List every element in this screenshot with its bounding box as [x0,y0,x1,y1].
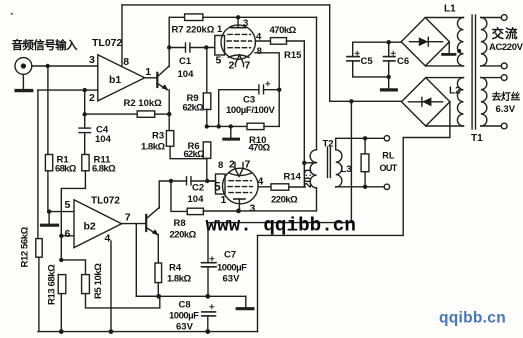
wire line A to C7 [208,101,351,262]
capacitor C7 1000uF [202,250,248,297]
transistor Q1 [157,66,169,90]
resistor R8 220k [170,208,239,240]
capacitor C4 [79,125,112,155]
svg-text:C3: C3 [243,95,255,106]
resistor R2 10k [124,98,170,117]
label 6.3V [492,90,521,115]
svg-text:1: 1 [217,24,223,35]
resistor R3 1.8k [141,114,174,152]
speck [11,13,13,15]
bridge rectifier L2 [402,78,450,126]
svg-text:L3: L3 [341,164,352,175]
wire b2 output to Q2 base [122,223,147,225]
capacitor C3 100uF [219,82,280,127]
svg-text:104: 104 [178,69,195,80]
node R9/R6 [205,124,209,128]
wire cathode rail tube1 [207,125,247,127]
node gnd stub [229,124,233,128]
svg-text:www. qqibb.cn: www. qqibb.cn [206,215,356,237]
terminal heater bottom [501,123,507,129]
wire Q2 collector up to C2 [159,181,171,208]
svg-text:C6: C6 [397,56,409,67]
wire b1 output to Q1 base [145,77,158,79]
resistor R11 6.8k [82,154,116,174]
svg-text:62kΩ: 62kΩ [183,103,204,113]
svg-text:62kΩ: 62kΩ [184,149,205,159]
ground (C7) [237,296,253,308]
svg-text:R2 10kΩ: R2 10kΩ [124,98,163,109]
svg-text:4: 4 [105,233,111,245]
wire input to b1 pin3 [32,65,98,67]
node UL tap [302,161,306,165]
svg-text:63V: 63V [223,274,241,285]
svg-text:TL072: TL072 [92,37,123,49]
resistor R15 470k [270,25,303,61]
wire b2 pin6 stub [61,235,74,237]
wire b2 output feedback down [136,224,158,297]
node C8/rail [205,329,210,334]
wire node to R5 top [61,260,85,275]
svg-text:5: 5 [216,55,222,67]
svg-text:b2: b2 [84,221,96,233]
bridge rectifier L1 [401,18,455,66]
wire top rail [122,4,330,6]
input label 音频信号输入 [12,38,78,52]
svg-text:1000µF: 1000µF [169,311,199,322]
svg-text:470kΩ: 470kΩ [270,25,297,36]
node R13/R5 [59,258,63,262]
svg-text:C5: C5 [361,56,374,67]
svg-text:交流: 交流 [492,26,519,41]
svg-text:R5 10kΩ: R5 10kΩ [93,263,104,299]
node pin4/rail [109,329,114,334]
tube V1 [215,17,262,71]
svg-text:6.3V: 6.3V [496,104,516,115]
svg-text:RL: RL [382,151,395,161]
node tube2 cathode [236,209,241,214]
node RL bottom [363,185,367,189]
terminal AC bottom [501,63,507,69]
wire Q1 collector up [168,17,170,66]
svg-text:220kΩ: 220kΩ [271,195,298,206]
svg-text:1.8kΩ: 1.8kΩ [167,274,191,285]
wire bridge L1 AC top [425,17,463,19]
ground (b2 pin5) [42,212,58,226]
node pin6 [59,234,63,238]
wire output node rail [136,295,246,297]
T1 secondary AC220V winding [481,18,502,66]
wire bridge L1 AC bottom [425,65,463,67]
wire tap to T2 primary [304,162,316,164]
node tube1 plate [236,15,240,19]
wire node down to R8 left [171,181,187,211]
svg-text:7: 7 [245,159,251,171]
resistor R9 62k [183,48,211,127]
svg-text:63V: 63V [176,322,194,333]
svg-text:R12 56kΩ: R12 56kΩ [20,226,31,267]
resistor R14 220k [271,172,302,206]
svg-text:b1: b1 [109,74,121,86]
wire node to R2 [85,113,138,115]
wire grid2 [207,180,215,182]
op-amp U1 b1 TL072 [89,37,151,104]
svg-text:R15: R15 [284,50,302,61]
svg-text:3: 3 [89,54,95,66]
wire input node down to R1 [47,66,49,155]
node C1/R9/grid1 [204,45,208,49]
svg-text:R14: R14 [284,172,302,183]
node pin5 gnd [47,209,51,213]
T1 core [472,15,475,129]
capacitor C5 [347,42,373,77]
resistor R10 470 [247,123,279,153]
wire R15 right down to tap node [287,41,305,163]
node C6 top [387,40,391,44]
wire bottom rail [38,331,258,333]
ground (C5/C6) [382,77,397,90]
svg-text:104: 104 [188,194,205,205]
node input junction [46,64,50,68]
svg-text:去灯丝: 去灯丝 [492,90,521,103]
wire supply to bridge L2 [330,100,402,102]
node C6 bottom [387,75,391,79]
svg-text:7: 7 [125,212,131,224]
node C7/C8 [205,294,210,299]
wire bridge L2 AC top [426,77,464,79]
input connector J1 [15,58,32,75]
svg-text:音频信号输入: 音频信号输入 [12,38,78,52]
svg-text:20:1: 20:1 [303,168,314,188]
T1 heater 6.3V winding [481,78,502,126]
capacitor C2 104 [171,177,216,205]
T2 secondary L3 [336,138,352,187]
wire Q1 emitter down [168,90,170,114]
node RL top [363,136,367,140]
resistor R5 10k vertical [82,263,104,299]
wire b1 pin8 up to top rail [121,5,123,66]
node supply/lineA [349,99,353,103]
svg-text:1: 1 [221,194,227,206]
svg-text:C7: C7 [224,250,236,261]
wire supply down from top rail [329,5,331,101]
terminal heater top [501,75,507,81]
ground (cathode rail) [224,126,239,139]
svg-text:R8: R8 [174,218,186,229]
wire pin2 node down [84,90,86,114]
transistor Q2 [146,208,159,236]
wire C5/C6 bottom [353,76,389,78]
svg-text:1: 1 [145,66,151,78]
terminal AC top [501,15,507,21]
resistor R4 1.8k [155,263,191,297]
svg-text:2: 2 [89,92,95,104]
wire C5/C6 top [353,41,402,43]
T2 core [328,147,331,178]
svg-text:6.8kΩ: 6.8kΩ [92,164,116,175]
svg-text:C8: C8 [179,300,191,311]
svg-text:R13 68kΩ: R13 68kΩ [47,264,58,305]
terminal out top [384,136,389,141]
wire L3 bottom to terminal [336,186,387,188]
svg-text:qqibb.cn: qqibb.cn [439,310,506,327]
resistor R7 220k [169,14,316,36]
wire R11 bottom to pin6 node [61,171,85,260]
svg-text:68kΩ: 68kΩ [55,164,77,175]
terminal out bottom [384,184,389,189]
node collector/C1 [167,45,171,49]
svg-text:OUT: OUT [380,163,398,173]
svg-text:3: 3 [243,18,248,29]
svg-text:8: 8 [218,160,223,171]
svg-text:100µF/100V: 100µF/100V [226,105,275,116]
wire tube1 pin4 to R15 [255,40,270,42]
svg-text:1000µF: 1000µF [217,263,247,274]
node pin2/C4 [83,88,87,92]
capacitor C1 104 [169,43,215,80]
svg-text:T1: T1 [471,133,483,144]
svg-text:4: 4 [258,176,264,188]
wire R3 bottom to R6 bottom [170,146,207,159]
ground (input) [16,74,32,90]
svg-text:TL072: TL072 [91,196,120,207]
wire L3 top to terminal [336,137,387,139]
resistor R6 62k [184,141,211,181]
node R13/rail [59,329,64,334]
op-amp U2 b2 TL072 [65,196,131,248]
svg-text:104: 104 [95,134,112,145]
node C2/R6/grid2 [205,179,209,183]
svg-text:2: 2 [229,60,235,72]
node emitter/R2/R3 [167,112,171,116]
wire left rail x38 down to R12 [37,90,39,239]
svg-text:R4: R4 [169,263,182,274]
svg-text:AC220V: AC220V [489,42,523,53]
resistor RL [361,138,398,187]
resistor R12 56k vertical [20,226,43,331]
node phasing dot [457,49,461,53]
svg-text:R7 220kΩ: R7 220kΩ [172,25,215,36]
svg-text:470Ω: 470Ω [249,143,271,154]
resistor R1 68k [45,154,76,211]
svg-text:L2: L2 [449,86,461,97]
wire b2 pin5 / R1 / ground node [49,211,74,213]
transformer T1 winding L1 [444,4,464,66]
capacitor C6 [384,42,410,77]
svg-text:L1: L1 [444,4,456,15]
resistor R13 68k vertical [47,264,66,332]
wire b1 pin2 [38,89,98,91]
svg-text:1.8kΩ: 1.8kΩ [141,142,165,153]
wire b2 pin4 down to rail [110,241,112,332]
wire bridge L2 AC bottom [426,125,464,127]
capacitor C8 1000uF [169,300,216,333]
wire cathode to T2 bottom [239,188,317,211]
svg-text:2: 2 [229,159,235,171]
node collector2/C2/R8 [169,179,173,183]
wire node to C4 [84,114,86,128]
wire tube1 pin8 down to C3/R10 [255,53,279,127]
svg-text:3: 3 [250,203,256,215]
label AC220V [489,26,523,53]
svg-text:6: 6 [65,228,71,240]
node C3 left [217,124,221,128]
svg-text:8: 8 [123,56,129,68]
svg-text:8: 8 [257,46,262,57]
svg-text:C1: C1 [179,56,192,67]
wire R5 bottom to output node [86,294,160,308]
wire tube2 pin4 to R14 [258,186,271,188]
svg-text:5: 5 [65,199,71,211]
node C3 right [277,88,281,92]
transformer T1 winding L2 [449,78,464,126]
svg-text:7: 7 [245,60,251,72]
wire Q2 emitter down to R4 [157,235,159,264]
svg-text:R3: R3 [152,131,164,142]
node C4/R2 [83,112,87,116]
node R4 bottom [156,294,161,299]
tube V2 [214,159,264,215]
svg-text:220kΩ: 220kΩ [170,230,197,241]
T2 primary winding [310,17,316,188]
svg-text:C2: C2 [192,183,204,194]
wire tap node down to R14 [289,163,305,187]
wire line B long return [258,102,450,332]
